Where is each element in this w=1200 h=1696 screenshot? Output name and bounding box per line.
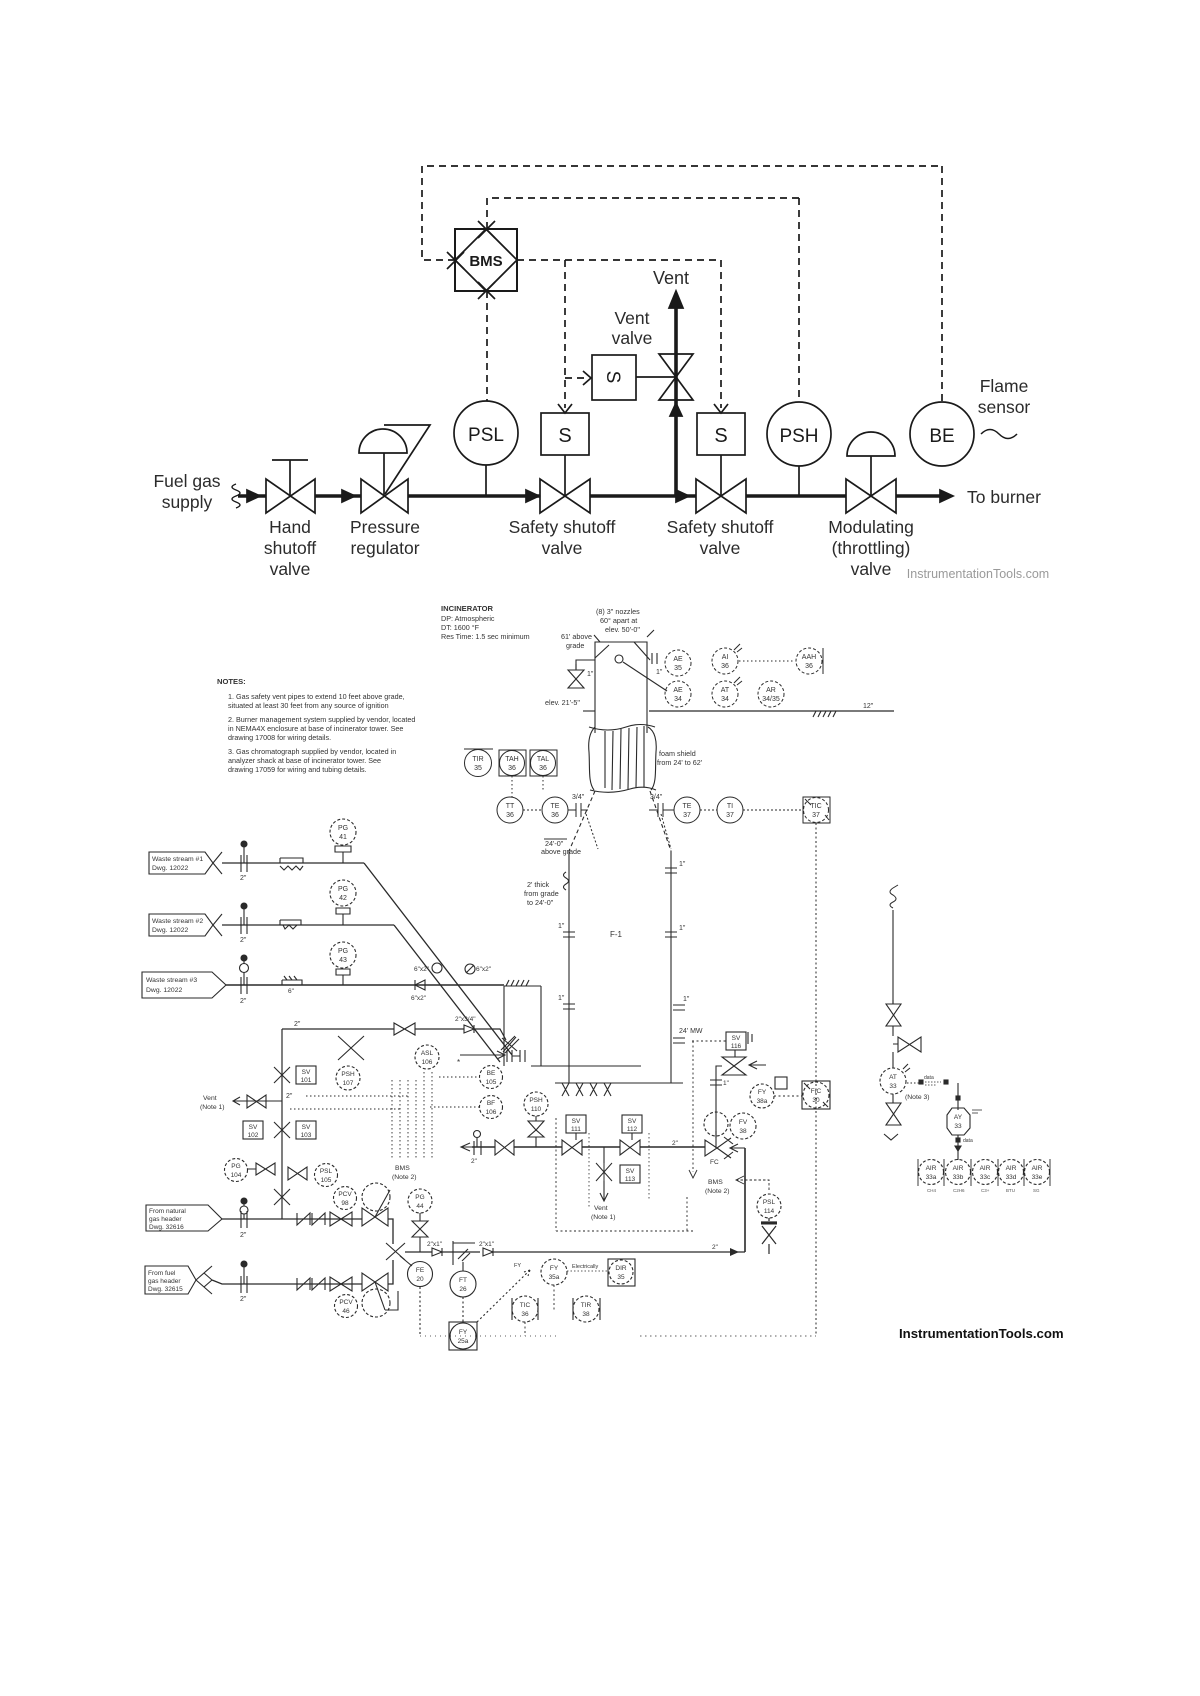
instrument AE34	[665, 681, 691, 707]
svg-text:33e: 33e	[1032, 1174, 1043, 1181]
wire dashed TE36 to vessel	[586, 814, 598, 849]
vent arrow top	[669, 291, 683, 308]
tag waste stream 2	[149, 914, 213, 936]
valve PCV98 body	[362, 1208, 388, 1226]
stack top nozzle marks	[594, 630, 654, 660]
svg-text:3/4": 3/4"	[572, 794, 585, 801]
computer AY33 hexagon	[947, 1108, 970, 1135]
svg-text:106: 106	[422, 1059, 433, 1066]
svg-text:SV: SV	[626, 1168, 635, 1175]
svg-text:2": 2"	[240, 1232, 247, 1239]
natgas sample	[241, 1198, 247, 1204]
AIR separators	[918, 1159, 1050, 1186]
svg-text:Dwg. 12022: Dwg. 12022	[146, 987, 182, 994]
svg-text:106: 106	[486, 1109, 497, 1116]
wire dotted to SV116	[692, 1040, 726, 1042]
svg-text:1": 1"	[679, 861, 686, 868]
svg-text:data: data	[924, 1075, 934, 1081]
burner line arrow left	[461, 1143, 472, 1151]
burner floor line upper	[531, 1065, 641, 1067]
svg-text:116: 116	[731, 1043, 742, 1050]
burner floor hatch	[562, 1083, 611, 1096]
igniter capacitors	[507, 1050, 525, 1062]
svg-text:35: 35	[617, 1274, 625, 1281]
grade line right of vessel	[649, 710, 894, 712]
instrument AI36	[712, 648, 738, 674]
svg-text:33d: 33d	[1006, 1174, 1017, 1181]
svg-text:AIR: AIR	[953, 1165, 964, 1172]
solenoid box SV113	[620, 1165, 640, 1183]
svg-text:FY: FY	[514, 1263, 521, 1269]
svg-text:SV: SV	[628, 1118, 637, 1125]
valve X vent	[596, 1163, 612, 1181]
relay FY35a	[541, 1259, 567, 1285]
svg-text:*: *	[457, 1058, 460, 1067]
pilot capacitor	[710, 1080, 722, 1085]
svg-text:valve: valve	[270, 559, 311, 579]
valve SV111 bowtie	[562, 1140, 582, 1155]
svg-text:Dwg. 12022: Dwg. 12022	[152, 927, 188, 934]
svg-text:12": 12"	[863, 703, 874, 710]
gauge PCV98	[334, 1187, 357, 1210]
sample pipe	[892, 910, 894, 1068]
analyzer AT33	[880, 1068, 906, 1094]
svg-text:36: 36	[539, 765, 547, 772]
svg-text:Vent: Vent	[594, 1205, 608, 1212]
svg-text:37: 37	[683, 812, 691, 819]
wire dotted FY25a diagonal	[477, 1270, 530, 1322]
svg-text:PSH: PSH	[779, 426, 818, 447]
pilot arrow	[749, 1061, 766, 1069]
svg-text:C3+: C3+	[981, 1188, 990, 1193]
svg-text:valve: valve	[851, 559, 892, 579]
vessel cone right	[650, 791, 671, 851]
svg-text:BF: BF	[487, 1100, 495, 1107]
wire dotted TAH down	[511, 776, 513, 798]
svg-text:C2H6: C2H6	[953, 1188, 965, 1193]
regulator actuator dome	[359, 429, 407, 453]
wire dashed branch to S1	[564, 260, 566, 408]
svg-text:33c: 33c	[980, 1174, 991, 1181]
stream3 strainer	[282, 976, 302, 985]
svg-text:BMS: BMS	[395, 1165, 410, 1172]
foam shield band	[589, 727, 595, 790]
svg-text:FC: FC	[710, 1159, 719, 1166]
svg-text:2": 2"	[240, 937, 247, 944]
svg-text:TIR: TIR	[581, 1302, 592, 1309]
pipe fuel gas	[212, 1260, 393, 1284]
svg-text:shutoff: shutoff	[264, 538, 316, 558]
svg-text:PSL: PSL	[320, 1168, 333, 1175]
stream2 capacitor	[241, 917, 247, 934]
svg-text:TT: TT	[506, 803, 515, 810]
right wall capacitor 1	[665, 868, 677, 873]
BE flame squiggle	[981, 430, 1017, 439]
svg-text:3. Gas chromatograph supplied: 3. Gas chromatograph supplied by vendor,…	[228, 747, 396, 756]
svg-text:2": 2"	[294, 1021, 301, 1028]
svg-text:TE: TE	[683, 803, 692, 810]
wire dotted horizontals to SV boxes	[290, 1096, 408, 1109]
svg-text:PG: PG	[338, 825, 348, 832]
svg-text:SG: SG	[1033, 1188, 1040, 1193]
valve PCV46 body	[362, 1273, 388, 1291]
svg-text:2": 2"	[286, 1093, 293, 1100]
svg-text:(Note 2): (Note 2)	[392, 1174, 417, 1181]
controller BMS diamond	[455, 229, 517, 291]
svg-text:Waste stream #1: Waste stream #1	[152, 856, 203, 863]
svg-text:From natural: From natural	[149, 1208, 186, 1215]
svg-text:6"x2": 6"x2"	[476, 966, 492, 973]
PCV46 actuator	[362, 1289, 390, 1317]
svg-text:AT: AT	[721, 687, 730, 694]
svg-text:33: 33	[889, 1083, 897, 1090]
svg-text:Pressure: Pressure	[350, 517, 420, 537]
TE37 capacitor left	[649, 803, 674, 817]
svg-text:1": 1"	[723, 1080, 730, 1087]
instrument TAH36 box	[499, 750, 526, 776]
flow arrow 2	[342, 490, 355, 502]
wire dotted TIC36 down	[524, 1322, 526, 1336]
svg-text:1. Gas safety vent pipes to ex: 1. Gas safety vent pipes to extend 10 fe…	[228, 692, 405, 701]
valve bowtie on 2in line	[394, 1023, 415, 1035]
fuelgas sample	[241, 1261, 247, 1267]
svg-text:PG: PG	[338, 948, 348, 955]
valve FV38	[730, 1113, 756, 1139]
main fuel gas pipe	[238, 494, 947, 498]
igniter break slashes	[501, 1036, 519, 1053]
left wall capacitor 1	[563, 932, 575, 937]
svg-text:20: 20	[416, 1276, 424, 1283]
tag waste stream 3	[142, 972, 226, 998]
svg-text:PSL: PSL	[763, 1199, 776, 1206]
svg-text:104: 104	[231, 1172, 242, 1179]
svg-text:valve: valve	[612, 328, 653, 348]
svg-text:gas header: gas header	[149, 1216, 182, 1223]
vent branch x604	[603, 1147, 605, 1163]
svg-text:Electrically: Electrically	[572, 1264, 599, 1270]
gauge PSL114	[757, 1194, 781, 1218]
AY33 out	[957, 1135, 959, 1160]
wire dashed BMS right to S2	[517, 260, 721, 408]
svg-text:36: 36	[551, 812, 559, 819]
svg-text:35: 35	[474, 765, 482, 772]
svg-text:FY: FY	[459, 1329, 468, 1336]
controller TIC37 box	[803, 797, 830, 823]
svg-text:DT: 1600 °F: DT: 1600 °F	[441, 623, 480, 632]
svg-text:37: 37	[812, 812, 820, 819]
wire dotted FE20 down	[419, 1287, 421, 1336]
modulating valve stem	[870, 456, 872, 496]
svg-text:33a: 33a	[926, 1174, 937, 1181]
gauge PSL105	[315, 1164, 338, 1187]
svg-text:46: 46	[342, 1308, 350, 1315]
svg-text:3/4": 3/4"	[650, 794, 663, 801]
svg-text:2": 2"	[471, 1158, 478, 1165]
PG42 seal	[336, 908, 350, 925]
svg-text:FE: FE	[416, 1267, 425, 1274]
svg-text:TAL: TAL	[537, 756, 549, 763]
svg-text:34: 34	[721, 696, 729, 703]
thickness squiggle	[564, 872, 569, 890]
stream1 strainer	[280, 858, 303, 870]
S1 stem	[564, 455, 566, 496]
valve FC body	[705, 1137, 733, 1159]
svg-text:AIR: AIR	[1032, 1165, 1043, 1172]
svg-text:F-1: F-1	[610, 930, 623, 939]
fuelgas capacitor	[241, 1276, 247, 1293]
svg-text:2"x1": 2"x1"	[427, 1241, 443, 1248]
svg-text:110: 110	[531, 1106, 542, 1113]
svg-text:105: 105	[321, 1177, 332, 1184]
svg-text:SV: SV	[302, 1124, 311, 1131]
pipe mixed gas line	[405, 1251, 745, 1253]
svg-text:elev. 50'-0": elev. 50'-0"	[605, 625, 640, 634]
svg-text:35a: 35a	[549, 1274, 560, 1281]
svg-text:34: 34	[674, 696, 682, 703]
recorder AIR33a	[919, 1160, 944, 1185]
recorder AIR33d	[999, 1160, 1024, 1185]
svg-text:(8) 3" nozzles: (8) 3" nozzles	[596, 607, 640, 616]
svg-text:sensor: sensor	[978, 397, 1031, 417]
svg-text:(Note 1): (Note 1)	[591, 1214, 616, 1221]
svg-text:PSH: PSH	[341, 1071, 355, 1078]
wire dotted arrow into BMS label	[737, 1180, 769, 1190]
svg-text:Dwg. 12022: Dwg. 12022	[152, 865, 188, 872]
svg-text:grade: grade	[566, 641, 584, 650]
pipe stream1	[222, 862, 364, 864]
burner inlet box	[504, 986, 541, 1066]
svg-text:98: 98	[341, 1200, 349, 1207]
wire dotted enclosure	[556, 1041, 694, 1231]
svg-text:gas header: gas header	[148, 1278, 181, 1285]
PSH110 relief	[528, 1116, 544, 1147]
valve bowtie b1	[495, 1140, 514, 1155]
svg-text:AIR: AIR	[1006, 1165, 1017, 1172]
svg-text:ASL: ASL	[421, 1050, 434, 1057]
svg-text:analyzer shack at base of inci: analyzer shack at base of incinerator to…	[228, 756, 381, 765]
svg-text:PG: PG	[415, 1194, 424, 1201]
lower chamber left wall	[568, 851, 570, 1083]
wire dotted TE37-TI37	[700, 809, 717, 811]
instrument AR34/35	[758, 681, 784, 707]
stream1 diagonal to burner	[364, 863, 512, 1055]
vent valve bowtie	[659, 354, 693, 400]
svg-text:111: 111	[571, 1126, 581, 1133]
valve X SV101	[274, 1067, 290, 1083]
wire dashed branch to vent solenoid	[565, 377, 586, 379]
gauge PCV46	[335, 1295, 358, 1318]
wire dashed BE drop	[941, 166, 943, 402]
svg-text:1": 1"	[679, 925, 686, 932]
PG41 seal	[335, 846, 351, 863]
instrument AE35	[665, 650, 691, 676]
svg-text:Modulating: Modulating	[828, 517, 914, 537]
pilot angle valve	[722, 1050, 746, 1075]
svg-text:43: 43	[339, 957, 347, 964]
svg-text:60° apart at: 60° apart at	[600, 616, 637, 625]
svg-text:101: 101	[301, 1077, 312, 1084]
fuelgas check valves	[297, 1278, 325, 1290]
gauge PSH107	[336, 1066, 360, 1090]
svg-text:38: 38	[582, 1311, 590, 1318]
svg-text:1": 1"	[558, 995, 565, 1002]
solenoid box SV112	[622, 1115, 642, 1133]
svg-text:FY: FY	[550, 1265, 559, 1272]
gauge ASL106	[415, 1045, 439, 1069]
pipe pilot line	[716, 1066, 722, 1138]
S2 stem	[720, 455, 722, 496]
regulator triangle	[384, 425, 430, 494]
reducer on diagonal 2	[465, 964, 475, 974]
svg-text:2. Burner management system su: 2. Burner management system supplied by …	[228, 715, 415, 724]
PG44 valve	[412, 1213, 428, 1252]
svg-text:SV: SV	[732, 1035, 741, 1042]
valve X spare	[338, 1036, 364, 1060]
wire dotted to BE105	[439, 1076, 479, 1078]
svg-text:Safety shutoff: Safety shutoff	[509, 517, 616, 537]
tag waste stream 1	[149, 852, 213, 874]
wire dashed FT26 down	[462, 1297, 464, 1322]
PSH instrument circle	[767, 402, 831, 466]
PG43 seal	[336, 969, 350, 985]
wire dotted TT36-TE36	[523, 809, 542, 811]
svg-text:PG: PG	[338, 886, 348, 893]
svg-text:AE: AE	[673, 687, 683, 694]
recorder TIR38	[573, 1298, 600, 1320]
wire dotted TAL down	[542, 776, 544, 790]
svg-text:valve: valve	[700, 538, 741, 558]
svg-text:FV: FV	[739, 1119, 748, 1126]
svg-text:from 24' to 62': from 24' to 62'	[657, 758, 703, 767]
valve X a3	[886, 1094, 901, 1125]
wire dashed PSH drop	[798, 198, 800, 402]
check valve 2x1 b	[483, 1248, 493, 1256]
svg-text:AY: AY	[954, 1114, 963, 1121]
check valve 2x1 a	[432, 1248, 442, 1256]
svg-text:TAH: TAH	[505, 756, 518, 763]
wire dotted FY35a-DIR35	[567, 1270, 608, 1272]
svg-text:AE: AE	[673, 656, 683, 663]
svg-text:102: 102	[248, 1132, 259, 1139]
instrument TE37	[674, 797, 700, 823]
svg-text:S: S	[714, 425, 727, 447]
svg-text:PSH: PSH	[529, 1097, 543, 1104]
foam shield stripes	[605, 726, 644, 790]
svg-text:CH4: CH4	[927, 1188, 936, 1193]
instrument TIR35 box	[464, 748, 493, 750]
stream3 sample	[241, 955, 247, 961]
lower chamber right wall	[670, 851, 672, 1083]
svg-text:to 24'-0": to 24'-0"	[527, 898, 554, 907]
svg-text:AI: AI	[722, 654, 729, 661]
svg-text:112: 112	[627, 1126, 638, 1133]
svg-text:113: 113	[625, 1176, 636, 1183]
controller TIC36	[512, 1298, 538, 1320]
stream1 capacitor	[241, 855, 247, 872]
igniter arrow	[460, 1051, 505, 1059]
stack left relief line	[576, 660, 595, 669]
FC valve actuator arc	[704, 1112, 728, 1136]
stream1 sample dot	[241, 841, 247, 847]
controller FIC30	[802, 1081, 830, 1109]
svg-text:drawing 17059 for wiring and t: drawing 17059 for wiring and tubing deta…	[228, 765, 367, 774]
analyzer squiggle	[890, 885, 898, 908]
svg-text:SV: SV	[249, 1124, 258, 1131]
valve SV112 bowtie	[620, 1140, 640, 1155]
svg-text:61' above: 61' above	[561, 632, 592, 641]
svg-text:36: 36	[521, 1311, 529, 1318]
svg-text:FT: FT	[459, 1277, 467, 1284]
fuelgas block valve	[330, 1277, 352, 1291]
recorder AIR33e	[1025, 1160, 1050, 1185]
svg-text:2": 2"	[240, 998, 247, 1005]
svg-text:INCINERATOR: INCINERATOR	[441, 604, 494, 613]
svg-text:Dwg. 32616: Dwg. 32616	[149, 1224, 184, 1231]
wire dotted TIC37 down long	[815, 823, 817, 1335]
gauge PG104	[225, 1159, 248, 1182]
stream3 capacitor	[241, 977, 247, 994]
svg-text:regulator: regulator	[350, 538, 419, 558]
hand valve stem	[272, 460, 308, 496]
svg-text:BE: BE	[929, 426, 954, 447]
svg-text:in NEMA4X enclosure at base of: in NEMA4X enclosure at base of incinerat…	[228, 724, 403, 733]
svg-text:36: 36	[506, 812, 514, 819]
PSL stem	[485, 465, 487, 496]
svg-text:PCV: PCV	[339, 1299, 353, 1306]
svg-text:36: 36	[721, 663, 729, 670]
svg-text:114: 114	[764, 1208, 775, 1215]
valve X SV103	[274, 1122, 290, 1138]
svg-text:FY: FY	[758, 1089, 767, 1096]
BMS left X mark	[447, 252, 464, 269]
svg-text:TIC: TIC	[810, 803, 821, 810]
gauge PG43	[330, 942, 356, 968]
svg-text:38: 38	[739, 1128, 747, 1135]
flow arrow 4	[676, 490, 689, 502]
flow arrow to burner	[940, 490, 953, 502]
stream2 sample dot	[241, 903, 247, 909]
hand shutoff valve V1	[266, 479, 315, 513]
top diagram text labels	[153, 268, 1049, 581]
svg-text:above grade: above grade	[541, 847, 581, 856]
solenoid box SV103	[296, 1121, 316, 1139]
svg-text:FIC: FIC	[811, 1088, 822, 1095]
arrow into FC from right	[730, 1144, 745, 1152]
svg-text:26: 26	[459, 1286, 467, 1293]
gauge BF106	[480, 1096, 503, 1119]
recorder AIR33b	[946, 1160, 971, 1185]
pipe burner gas line	[472, 1147, 745, 1252]
svg-text:InstrumentationTools.com: InstrumentationTools.com	[899, 1326, 1064, 1341]
wire dotted bundle verticals	[392, 1072, 432, 1160]
svg-text:Waste stream #3: Waste stream #3	[146, 977, 197, 984]
pipe break squiggle at fuel gas supply	[232, 484, 240, 508]
svg-text:6": 6"	[288, 988, 295, 995]
wire dotted TI37-TIC37	[743, 809, 803, 811]
tag2 break chevron	[213, 914, 222, 936]
svg-text:situated at least 30 feet from: situated at least 30 feet from any sourc…	[228, 701, 389, 710]
svg-text:Hand: Hand	[269, 517, 311, 537]
natgas check valves	[297, 1213, 325, 1225]
right wall capacitor 4	[673, 1038, 685, 1043]
wire dashed BMS bottom to PSL	[486, 291, 488, 401]
vent solenoid link to vent valve	[636, 376, 676, 378]
svg-text:Safety shutoff: Safety shutoff	[667, 517, 774, 537]
svg-text:InstrumentationTools.com: InstrumentationTools.com	[907, 567, 1049, 581]
solenoid box SV116	[726, 1032, 746, 1050]
flow arrow 1	[247, 490, 260, 502]
pipe natural gas	[222, 1219, 393, 1244]
